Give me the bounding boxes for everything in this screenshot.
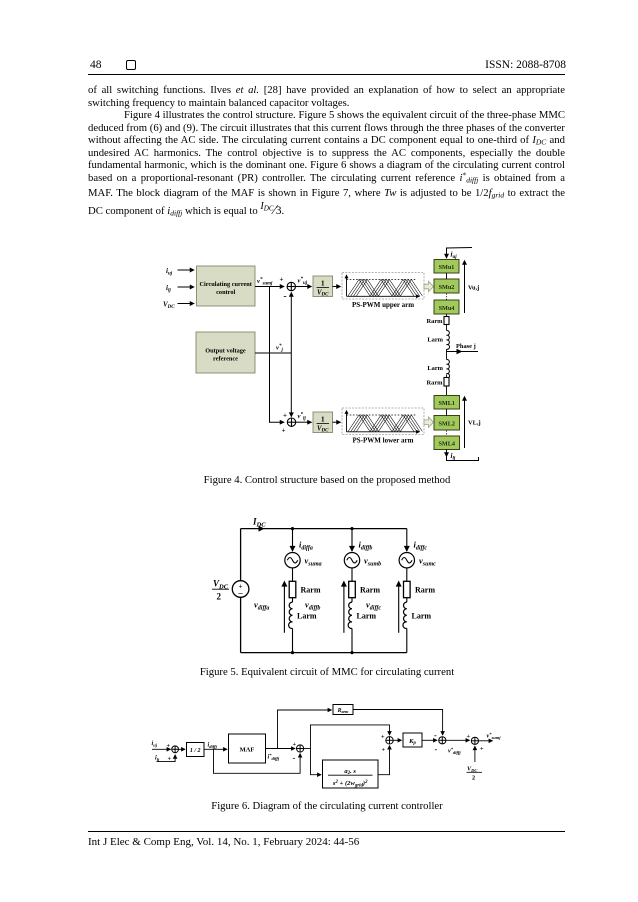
block: Circulating current control (197, 266, 256, 306)
footer (88, 831, 565, 832)
wire Kp to J4 (422, 739, 437, 741)
svg-text:1: 1 (321, 279, 325, 288)
resistor Rarm lower (444, 378, 449, 387)
wire Rarm to SML1 (446, 386, 448, 396)
svg-text:-: - (284, 292, 287, 302)
wire to bottom (292, 628, 294, 652)
svg-text:SMu4: SMu4 (439, 305, 455, 312)
svg-text:reference: reference (213, 356, 238, 363)
wire to ps-pwm lower (333, 421, 341, 423)
svg-text:Larm: Larm (427, 337, 443, 344)
svg-text:v*diffj: v*diffj (448, 746, 461, 755)
svg-text:1: 1 (346, 279, 348, 283)
svg-text:vsuma: vsuma (305, 556, 322, 568)
block: Output voltage reference (196, 332, 255, 373)
svg-text:idiffb: idiffb (359, 540, 373, 552)
svg-text:vdiffc: vdiffc (366, 600, 381, 612)
junction dots top bus (291, 527, 294, 530)
wire (292, 598, 294, 602)
svg-text:idiffa: idiffa (299, 540, 313, 552)
inductor Larm lower (447, 359, 450, 378)
svg-text:+: + (480, 746, 484, 753)
wire Rarm to Larm (446, 325, 448, 331)
PS-PWM upper arm box (342, 273, 424, 300)
svg-text:+: + (283, 412, 287, 420)
svg-text:Output voltage: Output voltage (205, 348, 246, 355)
block 1/Vdc lower (313, 412, 333, 434)
wire J1 to half block (179, 748, 186, 750)
svg-text:v*j: v*j (276, 344, 283, 353)
svg-text:Larm: Larm (357, 612, 377, 621)
body text (88, 84, 565, 217)
top dc wire into SMu1 (447, 248, 473, 254)
wire into source a with arrow (292, 529, 294, 551)
svg-text:+: + (168, 756, 172, 763)
branch up to J3 top (311, 725, 390, 749)
block resonant a2s/(s^2+(2wgrid)^2) (323, 760, 379, 788)
svg-text:Larm: Larm (412, 612, 432, 621)
svg-text:1 / 2: 1 / 2 (190, 748, 201, 754)
feedback wire i_diffj down to J2 bottom (214, 749, 301, 773)
SML4 (434, 436, 460, 450)
svg-text:VDC: VDC (163, 301, 175, 311)
SML1 (434, 396, 460, 410)
svg-text:vsumb: vsumb (364, 556, 381, 568)
wire v*sumj (255, 286, 284, 288)
svg-text:Phase j: Phase j (456, 343, 476, 350)
svg-text:1: 1 (346, 414, 348, 418)
block arrow upper (424, 281, 434, 291)
svg-text:PS-PWM upper arm: PS-PWM upper arm (352, 301, 414, 309)
figure 4 svg (140, 238, 500, 475)
wire SMu4 to Rarm (446, 314, 448, 317)
block MAF (229, 734, 266, 763)
wire J4 to J5 (446, 739, 470, 741)
header (88, 58, 566, 60)
wire to MAF (204, 748, 227, 750)
svg-text:−: − (238, 588, 243, 598)
svg-text:PS-PWM lower arm: PS-PWM lower arm (353, 437, 414, 445)
connector SMu1-SMu2 (446, 273, 448, 279)
svg-text:+: + (293, 741, 297, 748)
wire V_DC/2 up into J5 (474, 746, 476, 762)
branch down into resonant block (311, 749, 322, 775)
svg-text:Rarm: Rarm (427, 318, 444, 325)
svg-text:Rarm: Rarm (301, 586, 321, 595)
svg-text:+: + (382, 747, 386, 754)
svg-text:VDC: VDC (213, 579, 229, 591)
svg-text:+: + (467, 733, 471, 740)
block arrow lower (424, 417, 434, 427)
Vu,j measurement arrow (464, 261, 466, 314)
svg-text:v*uj: v*uj (298, 277, 308, 286)
svg-text:control: control (216, 289, 235, 296)
wire between inductors / phase j node (446, 349, 448, 359)
inductor Larm a (289, 602, 293, 628)
svg-text:VL,j: VL,j (468, 420, 481, 427)
label V_DC/2 (213, 579, 229, 602)
output wire v*_sumj (479, 740, 493, 742)
inductor Larm upper (447, 330, 450, 349)
wire v*j up into upper sum (minus) (290, 293, 292, 354)
svg-text:Vu,j: Vu,j (468, 285, 479, 292)
summing junction J5 (471, 737, 478, 744)
source V_DC/2 (232, 581, 249, 598)
svg-text:-: - (293, 753, 296, 763)
wire v*j (255, 352, 291, 354)
wire (292, 568, 294, 581)
svg-text:SMu2: SMu2 (439, 284, 455, 291)
top dc bus wire (241, 528, 407, 530)
svg-text:Larm: Larm (427, 365, 443, 372)
PS-PWM lower arm box (342, 408, 424, 435)
svg-text:v*lj: v*lj (298, 413, 307, 422)
wire J2 out with branches (304, 748, 311, 750)
resistor Rarm a (289, 581, 296, 597)
svg-text:IDC: IDC (252, 517, 266, 529)
dotted connector SMu2-SMu4 (446, 294, 448, 300)
wire MAF to J2 (266, 748, 296, 750)
summing junction J3 (386, 737, 393, 744)
svg-text:SML1: SML1 (438, 400, 455, 407)
svg-text:iuj: iuj (152, 740, 158, 747)
resistor Rarm upper (444, 317, 449, 325)
svg-text:v*sumj: v*sumj (487, 731, 502, 740)
svg-text:-: - (435, 744, 438, 754)
svg-text:Larm: Larm (297, 612, 317, 621)
wire to ps-pwm upper (333, 286, 341, 288)
svg-text:Rarm: Rarm (415, 586, 435, 595)
wire input i_uj arrow (178, 269, 195, 271)
SMu1 (434, 260, 459, 274)
figure 6 svg (145, 698, 510, 800)
summing junction J2 (297, 745, 304, 752)
junction dots bottom bus (291, 651, 294, 654)
svg-text:2: 2 (472, 775, 475, 782)
bottom wire (241, 652, 407, 654)
svg-text:SMu1: SMu1 (439, 264, 455, 271)
svg-text:+: + (167, 743, 171, 750)
SML2 (434, 416, 460, 431)
block Kp (403, 733, 422, 747)
svg-text:1: 1 (321, 415, 325, 424)
block 1/Vdc upper (313, 276, 333, 298)
SMu2 (434, 279, 459, 293)
bottom wire i_lj (446, 450, 448, 457)
SMu4 (434, 300, 459, 314)
wire i_uj into sum1 (152, 748, 171, 750)
wire branch v*sumj down to lower sum (270, 287, 285, 423)
svg-text:-: - (434, 730, 437, 740)
summing junction lower (287, 418, 295, 426)
svg-text:Rarm: Rarm (427, 380, 444, 387)
v_diffa measurement arrow (283, 582, 285, 633)
svg-text:Rarm: Rarm (360, 586, 380, 595)
svg-text:2: 2 (217, 592, 222, 602)
summing junction J4 (439, 737, 446, 744)
svg-text:i*diffj: i*diffj (268, 752, 280, 761)
svg-text:vdiffb: vdiffb (305, 600, 320, 612)
ac source v_suma (285, 553, 300, 568)
svg-text:ilj: ilj (155, 755, 160, 762)
svg-text:v*sumj: v*sumj (257, 278, 273, 287)
wire v*j down into lower sum (290, 353, 292, 417)
connector SML1-SML2 (446, 409, 448, 416)
svg-text:SML2: SML2 (438, 421, 455, 428)
svg-text:+: + (280, 276, 284, 284)
wire resonant out up into J3 bottom (378, 746, 390, 775)
wire upper sum to 1/Vdc (296, 286, 312, 288)
svg-text:Circulating current: Circulating current (199, 281, 252, 288)
left wire (240, 529, 242, 581)
svg-text:vdiffa: vdiffa (254, 600, 269, 612)
wire Rarm down into J4 (353, 710, 443, 736)
svg-text:+: + (381, 734, 385, 741)
svg-text:idiffc: idiffc (414, 540, 428, 552)
svg-text:vsumc: vsumc (419, 556, 436, 568)
phase j tap wire (447, 351, 479, 353)
block Rarm (333, 705, 353, 715)
wire input V_DC arrow (178, 303, 195, 305)
svg-text:VDC: VDC (467, 766, 478, 773)
wire Larm to Rarm lower (446, 375, 448, 378)
svg-text:idiffj: idiffj (208, 742, 218, 749)
svg-text:Rarm: Rarm (337, 708, 350, 714)
VL,j measurement arrow (464, 397, 466, 449)
summing junction upper (287, 282, 295, 290)
svg-text:ilj: ilj (166, 284, 171, 294)
feedforward wire up to Rarm block (278, 710, 332, 749)
summing junction J1 (172, 746, 179, 753)
wire i_lj into sum1 bottom (157, 755, 176, 762)
I_DC arrow on bus (259, 526, 265, 532)
wire lower sum to 1/Vdc (296, 421, 312, 423)
svg-text:iuj: iuj (451, 251, 458, 261)
svg-text:SML4: SML4 (438, 441, 455, 448)
svg-text:MAF: MAF (240, 746, 255, 753)
dotted connector SML2-SML4 (446, 431, 448, 436)
wire input i_lj arrow (178, 286, 195, 288)
block 1/2 (187, 743, 205, 757)
wire J3 to Kp (393, 739, 401, 741)
svg-text:iuj: iuj (166, 267, 173, 277)
svg-text:+: + (282, 427, 286, 435)
figure 5 svg (200, 508, 470, 665)
